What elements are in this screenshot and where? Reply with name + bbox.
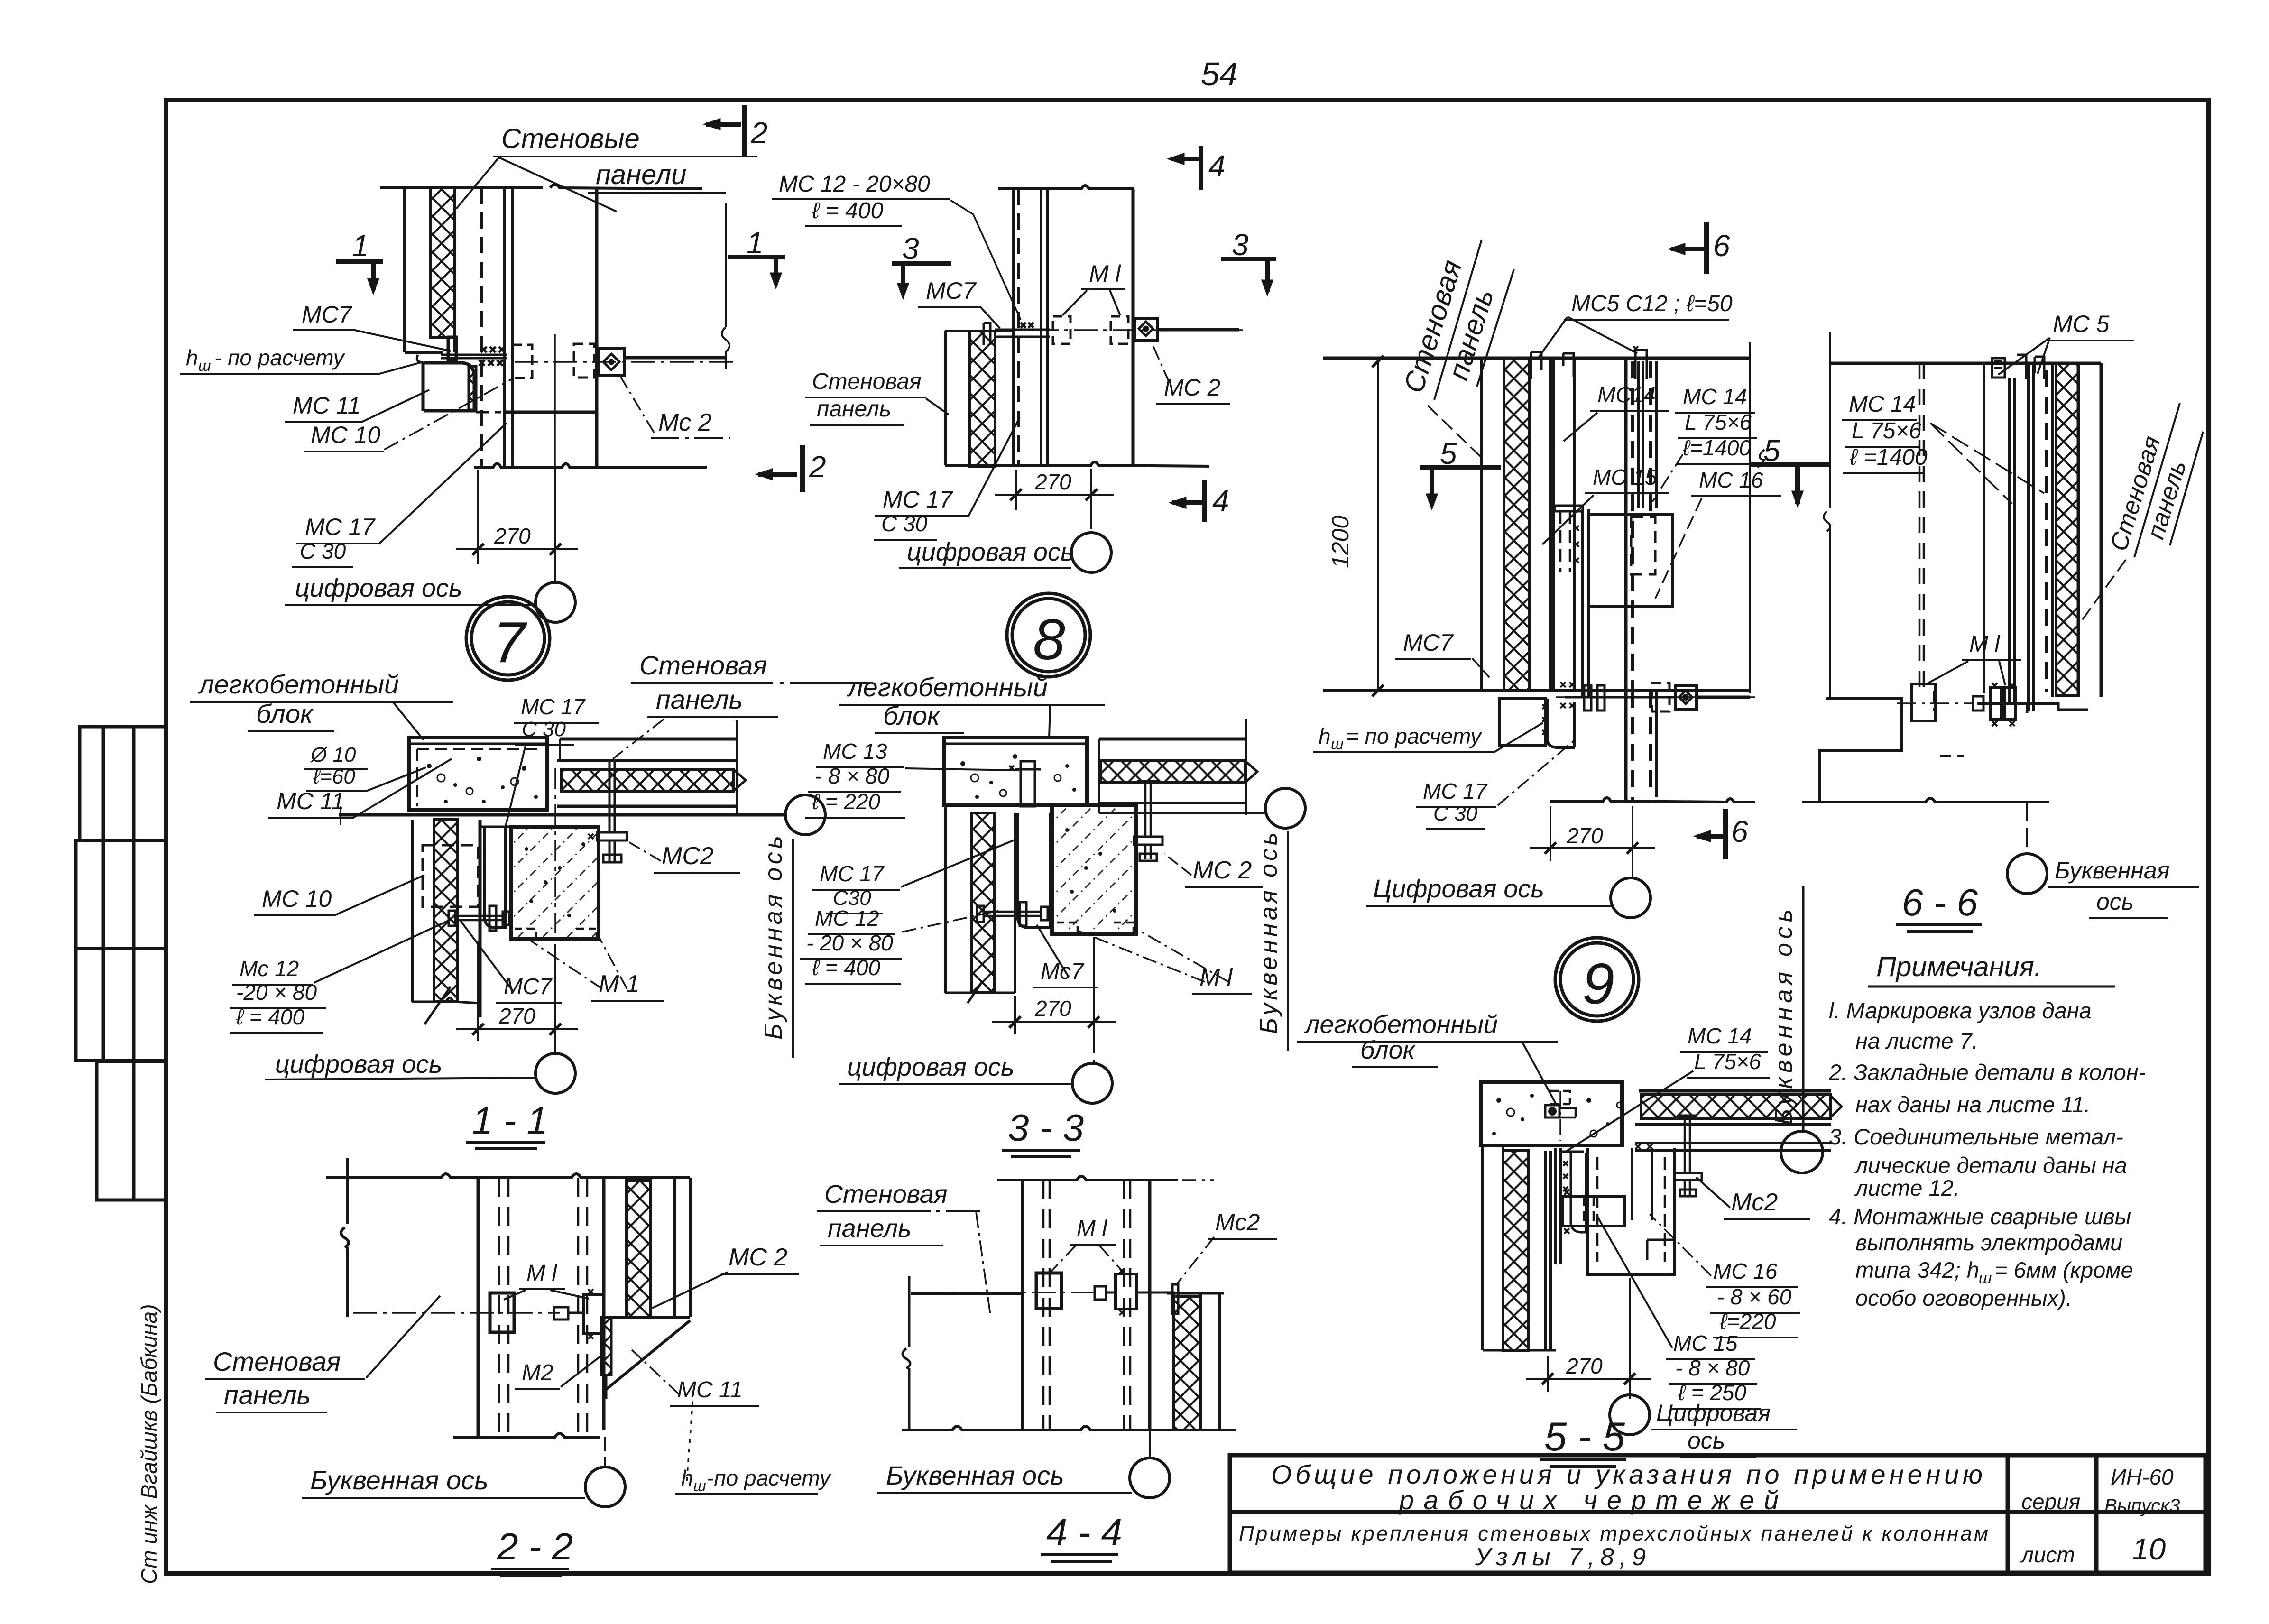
svg-text:1: 1: [747, 226, 764, 260]
svg-text:МС 16: МС 16: [1713, 1259, 1778, 1283]
bottom line: [453, 1433, 600, 1437]
dashed hidden lines: [1919, 363, 1924, 688]
svg-text:легкобетонный: легкобетонный: [198, 669, 399, 699]
svg-text:Стеновая: Стеновая: [824, 1180, 948, 1209]
lower assembly: [1323, 342, 1750, 697]
dimension 270: [1530, 806, 1655, 878]
connector plate: [995, 330, 1050, 337]
embed plate M1 (dashed): [512, 345, 532, 378]
bottom line: [902, 1426, 1236, 1430]
svg-text:Стеновые: Стеновые: [501, 123, 640, 154]
bolt assembly: [1036, 1273, 1061, 1309]
section mark 5 left: [1420, 468, 1501, 508]
svg-text:МС 10: МС 10: [262, 886, 332, 912]
svg-text:М l: М l: [1077, 1216, 1107, 1241]
svg-text:6: 6: [1731, 814, 1748, 849]
svg-text:ш: ш: [1979, 1269, 1992, 1287]
svg-text:МС 12: МС 12: [815, 906, 879, 931]
bottom break line: [1550, 798, 1755, 802]
svg-text:4: 4: [1208, 149, 1226, 183]
long horizontal line to bubble: [339, 813, 785, 817]
svg-text:лист: лист: [2020, 1542, 2075, 1567]
svg-text:ℓ =1400: ℓ =1400: [1849, 445, 1928, 470]
svg-text:4. Монтажные сварные швы: 4. Монтажные сварные швы: [1829, 1204, 2131, 1229]
svg-text:М2: М2: [522, 1360, 553, 1385]
svg-text:МС 12 - 20×80: МС 12 - 20×80: [779, 172, 930, 197]
wall panel right (horizontal): [1639, 1089, 1831, 1093]
svg-text:9: 9: [1582, 951, 1614, 1016]
svg-text:М 1: М 1: [599, 970, 640, 998]
МС2 anchor: [1135, 319, 1157, 341]
wall panel right (horizontal): [1099, 738, 1246, 741]
svg-text:3: 3: [1232, 228, 1249, 262]
right edge vertical: [1749, 342, 1751, 693]
dimension 270: [456, 467, 578, 582]
section mark 3 right: [1221, 259, 1276, 295]
svg-text:ось: ось: [1688, 1427, 1725, 1454]
svg-text:1200: 1200: [1327, 516, 1354, 568]
weld marks: [1021, 323, 1033, 328]
svg-text:5 - 5: 5 - 5: [1544, 1414, 1625, 1459]
svg-text:ось: ось: [2096, 888, 2134, 915]
svg-text:Примеры крепления стеновых т: Примеры крепления стеновых трехслойных п…: [1239, 1522, 1988, 1545]
right extension line with break: [722, 203, 729, 369]
svg-text:- 20 × 80: - 20 × 80: [806, 931, 893, 955]
svg-text:ℓ=1400: ℓ=1400: [1682, 435, 1751, 460]
svg-text:L 75×6: L 75×6: [1685, 410, 1752, 434]
svg-text:Буквенная: Буквенная: [2055, 857, 2169, 884]
concrete block: [944, 738, 1087, 805]
svg-text:Стеновая: Стеновая: [213, 1347, 341, 1376]
svg-text:ш: ш: [1331, 736, 1344, 753]
svg-text:блок: блок: [883, 701, 941, 730]
svg-text:МС 14: МС 14: [1688, 1024, 1752, 1048]
svg-text:270: 270: [1034, 996, 1071, 1021]
svg-text:М l: М l: [1089, 260, 1122, 287]
structure: [339, 720, 785, 1024]
J channel in assembly: [1571, 1153, 1586, 1232]
svg-text:Выпуск3: Выпуск3: [2104, 1495, 2180, 1516]
svg-text:270: 270: [1566, 1354, 1603, 1378]
panel inner leaf double line: [504, 188, 513, 467]
svg-text:ℓ=220: ℓ=220: [1719, 1309, 1776, 1334]
svg-text:легкобетонный: легкобетонный: [1304, 1010, 1498, 1039]
МС17 channel: [485, 827, 506, 928]
bolt assembly: [583, 1295, 603, 1334]
svg-text:МС7: МС7: [302, 301, 353, 328]
МС10 dashed embed: [423, 845, 478, 907]
буквенная ось: [2026, 802, 2028, 853]
svg-text:ИН-60: ИН-60: [2111, 1465, 2174, 1489]
svg-text:МС 17: МС 17: [820, 861, 885, 886]
svg-text:Мс 12: Мс 12: [240, 956, 299, 981]
wall panel leaves: [1480, 358, 1483, 691]
svg-text:ш: ш: [693, 1477, 706, 1495]
svg-text:ℓ = 400: ℓ = 400: [236, 1005, 304, 1029]
svg-text:Стеновая: Стеновая: [639, 650, 767, 680]
svg-text:Мс2: Мс2: [1731, 1189, 1778, 1216]
centerline: [353, 1312, 560, 1314]
МС14 angle: [1555, 1148, 1560, 1264]
lower-left wall panel: [945, 331, 1014, 465]
svg-text:панель: панель: [224, 1380, 311, 1410]
svg-text:МС 11: МС 11: [277, 788, 345, 814]
svg-text:МС 11: МС 11: [677, 1377, 743, 1403]
svg-text:цифровая ось: цифровая ось: [907, 538, 1074, 566]
panel bottom bracket: [2027, 703, 2088, 713]
svg-text:МС 14: МС 14: [1849, 392, 1916, 417]
bolt at top of block МС13: [1021, 761, 1035, 806]
svg-text:- 8 × 80: - 8 × 80: [1675, 1356, 1750, 1380]
column lines: [477, 1178, 480, 1437]
svg-text:листе 12.: листе 12.: [1854, 1175, 1960, 1200]
svg-text:панель: панель: [828, 1214, 912, 1243]
svg-text:h: h: [186, 345, 198, 370]
bottom floor line: [1323, 689, 1750, 692]
1200 vertical dimension: [1323, 356, 1384, 696]
svg-text:ℓ = 220: ℓ = 220: [812, 789, 880, 814]
svg-text:МС 15: МС 15: [1593, 465, 1657, 489]
svg-text:- 8 × 80: - 8 × 80: [815, 764, 890, 788]
svg-text:-по расчету: -по расчету: [707, 1466, 832, 1490]
svg-text:4: 4: [1212, 484, 1229, 518]
column face lines: [1624, 358, 1628, 691]
section mark 3 left: [892, 263, 951, 298]
node 7 bubble: [466, 597, 550, 680]
big bracket: [1587, 1148, 1674, 1274]
svg-text:Цифровая ось: Цифровая ось: [1373, 875, 1544, 903]
dimension 270: [1526, 1278, 1651, 1399]
буквенная ось bubble top-right: [1781, 1131, 1823, 1173]
top line: [1831, 362, 2101, 365]
svg-text:рабочих чертежей: рабочих чертежей: [1398, 1485, 1779, 1515]
svg-text:Буквенная ось: Буквенная ось: [310, 1465, 489, 1495]
svg-text:2: 2: [809, 450, 826, 484]
section mark 1 right: [728, 257, 785, 287]
support bracket МС11: [605, 1320, 690, 1390]
svg-text:5: 5: [1763, 434, 1780, 468]
svg-text:10: 10: [2132, 1532, 2166, 1566]
svg-text:- по расчету: - по расчету: [214, 345, 346, 370]
concrete block: [1481, 1082, 1622, 1145]
lower panel vertical: [944, 805, 947, 993]
joint assembly: [441, 334, 733, 562]
svg-text:270: 270: [1034, 470, 1071, 494]
МС2 bolt vertical: [609, 761, 615, 832]
section mark 5 right: [1750, 465, 1831, 506]
node 9 bubble: [1555, 938, 1639, 1021]
МС2 anchor: [1676, 686, 1697, 710]
top clip МС5: [2017, 355, 2044, 379]
svg-text:МС 2: МС 2: [729, 1244, 787, 1271]
svg-text:МС7: МС7: [1403, 629, 1454, 656]
section mark 4 top: [1169, 146, 1201, 190]
wall panel to the right (horizontal): [560, 738, 737, 741]
svg-text:МС 17: МС 17: [883, 486, 953, 513]
svg-text:ℓ=60: ℓ=60: [313, 765, 355, 788]
panel right: [627, 1181, 651, 1317]
svg-text:МС 15: МС 15: [1673, 1331, 1738, 1356]
panel outer leaf line: [403, 188, 406, 352]
dimension 270: [995, 469, 1114, 533]
svg-text:Мс7: Мс7: [1041, 959, 1085, 984]
centerline: [515, 361, 733, 363]
below-floor joint: [1499, 682, 1755, 802]
dimension 270: [992, 937, 1116, 1063]
structure verticals: [1983, 363, 1985, 693]
svg-text:1 - 1: 1 - 1: [472, 1099, 548, 1142]
svg-text:М l: М l: [526, 1261, 557, 1286]
svg-text:МС 17: МС 17: [305, 514, 376, 540]
svg-text:цифровая ось: цифровая ось: [847, 1053, 1014, 1081]
svg-text:серия: серия: [2021, 1489, 2080, 1514]
svg-text:ℓ = 400: ℓ = 400: [812, 955, 880, 980]
stipple dots in block: [427, 757, 538, 803]
svg-text:= 6мм (кроме: = 6мм (кроме: [1994, 1257, 2133, 1283]
details inside block: [1550, 1091, 1570, 1104]
column stub: [1052, 805, 1136, 934]
svg-text:легкобетонный: легкобетонный: [847, 672, 1048, 702]
svg-text:4 - 4: 4 - 4: [1046, 1511, 1122, 1553]
svg-text:2. Закладные детали в колон-: 2. Закладные детали в колон-: [1828, 1060, 2146, 1085]
centerline: [915, 1292, 1100, 1293]
svg-text:МС 13: МС 13: [823, 739, 887, 764]
hш bracket and channel: [1499, 699, 1546, 745]
svg-text:ℓ = 400: ℓ = 400: [812, 198, 884, 223]
insulation layer (hatched): [431, 188, 455, 337]
svg-text:8: 8: [1033, 607, 1065, 672]
M1 embeds dashed: [1053, 316, 1070, 344]
anchor МС2: [598, 348, 624, 376]
column dashed hidden line: [480, 188, 483, 467]
МС7 bolt horizontal: [983, 912, 1041, 916]
M1 joint: [1897, 683, 2059, 726]
concrete block: [409, 738, 547, 810]
svg-text:Примечания.: Примечания.: [1876, 951, 2042, 982]
svg-text:Буквенная ось: Буквенная ось: [886, 1460, 1064, 1490]
svg-text:С 30: С 30: [1433, 802, 1477, 825]
МС5 clips at top: [1531, 352, 1541, 379]
svg-text:54: 54: [1201, 55, 1238, 92]
svg-text:= по расчету: = по расчету: [1346, 724, 1483, 748]
stipples in block: [1492, 1094, 1610, 1135]
svg-text:МС 14: МС 14: [1683, 384, 1747, 409]
svg-text:7: 7: [493, 610, 527, 674]
svg-text:МС 2: МС 2: [1193, 857, 1252, 884]
svg-text:Ø 10: Ø 10: [310, 743, 356, 766]
svg-text:выполнять электродами: выполнять электродами: [1855, 1230, 2122, 1255]
МС14 angle: [1639, 361, 1657, 508]
weld marks: [481, 347, 505, 352]
svg-text:цифровая ось: цифровая ось: [295, 574, 462, 602]
svg-text:- 8 × 60: - 8 × 60: [1717, 1284, 1792, 1309]
left extension: [1824, 332, 1830, 699]
svg-text:блок: блок: [1360, 1036, 1416, 1064]
svg-text:5: 5: [1440, 436, 1457, 471]
svg-text:2: 2: [750, 116, 768, 150]
svg-text:цифровая ось: цифровая ось: [275, 1050, 442, 1079]
svg-text:М l: М l: [1969, 632, 2000, 657]
svg-text:МС14: МС14: [1597, 382, 1656, 407]
svg-text:панель: панель: [656, 684, 743, 714]
line под column: [476, 411, 501, 414]
МС16 plate: [1632, 1148, 1652, 1220]
svg-text:270: 270: [1566, 823, 1603, 848]
svg-text:лические детали даны на: лические детали даны на: [1854, 1153, 2127, 1178]
clip at panel top: [984, 323, 990, 345]
svg-text:2 - 2: 2 - 2: [497, 1525, 573, 1568]
svg-text:Стеновая: Стеновая: [812, 369, 922, 394]
column bottom step: [1820, 699, 1902, 801]
svg-text:Мс2: Мс2: [1215, 1209, 1260, 1236]
top floor line: [1323, 357, 1750, 360]
svg-text:L 75×6: L 75×6: [1694, 1049, 1762, 1074]
left column of 5-5: [1481, 1145, 1484, 1350]
structure: [1481, 1082, 1842, 1350]
svg-text:С 30: С 30: [300, 539, 346, 563]
svg-text:МС 2: МС 2: [1164, 374, 1221, 401]
svg-text:3: 3: [902, 231, 919, 266]
svg-text:блок: блок: [256, 699, 314, 729]
wall panel top edge: [380, 185, 702, 189]
section mark 6 top: [1669, 222, 1706, 274]
svg-text:-20 × 80: -20 × 80: [236, 980, 317, 1005]
svg-text:панель: панель: [817, 397, 891, 422]
section mark 2 bottom: [757, 445, 802, 492]
svg-text:h: h: [1319, 724, 1331, 748]
буквенная ось: [1265, 788, 1305, 828]
bottom break line: [945, 462, 1209, 466]
column lines: [1012, 189, 1015, 466]
top line: [326, 1174, 690, 1178]
left break line: [341, 1158, 349, 1317]
top line: [997, 1176, 1178, 1180]
svg-text:МС 16: МС 16: [1699, 468, 1763, 492]
left panel edge: [911, 1292, 1021, 1295]
svg-text:МС 11: МС 11: [293, 392, 361, 419]
svg-text:Мс 2: Мс 2: [658, 409, 712, 436]
lower wall panel vertical: [411, 820, 414, 1002]
M1 plate: [490, 1293, 514, 1332]
МС5 clip on column: [1635, 350, 1647, 379]
МС7 bolt horizontal: [454, 916, 503, 920]
svg-text:Цифровая: Цифровая: [1656, 1400, 1771, 1426]
svg-text:ш: ш: [198, 357, 211, 374]
column stub concrete: [511, 827, 599, 939]
section mark 1 left: [336, 261, 383, 293]
grid bubble: [535, 582, 575, 622]
svg-text:3 - 3: 3 - 3: [1008, 1107, 1084, 1149]
svg-text:МС7: МС7: [926, 277, 977, 304]
column axis thin line: [554, 334, 556, 562]
svg-text:особо оговоренных).: особо оговоренных).: [1855, 1285, 2072, 1310]
МС7 connector piece at bottom of insulation: [448, 337, 456, 360]
svg-text:МС5 С12 ; ℓ=50: МС5 С12 ; ℓ=50: [1571, 291, 1733, 316]
svg-text:нах даны на листе 11.: нах даны на листе 11.: [1855, 1092, 2091, 1117]
svg-text:3. Соединительные метал-: 3. Соединительные метал-: [1829, 1124, 2123, 1149]
fold mark boxes left margin: [76, 727, 166, 1200]
svg-text:МС7: МС7: [504, 974, 553, 999]
top edge: [998, 185, 1134, 189]
svg-text:МС 17: МС 17: [521, 694, 586, 719]
svg-text:МС 17: МС 17: [1423, 779, 1488, 803]
section mark 4 bottom: [1171, 480, 1205, 522]
svg-text:270: 270: [498, 1004, 535, 1028]
svg-text:МС 5: МС 5: [2053, 311, 2110, 337]
svg-text:6 - 6: 6 - 6: [1902, 881, 1978, 923]
section mark 2 top: [705, 105, 745, 157]
svg-text:типа 342; h: типа 342; h: [1855, 1257, 1979, 1283]
svg-text:на листе 7.: на листе 7.: [1855, 1028, 1978, 1053]
буквенная ось (rotated): [785, 795, 825, 835]
section mark 6 bottom: [1695, 809, 1725, 859]
panel right: [1174, 1297, 1200, 1430]
svg-text:6: 6: [1713, 229, 1730, 263]
node 8 bubble: [1007, 593, 1090, 677]
МС15 plate: [1563, 1196, 1625, 1226]
svg-text:Узлы 7,8,9: Узлы 7,8,9: [1475, 1543, 1646, 1571]
svg-text:Ст инж Вгайшкв (Бабкина): Ст инж Вгайшкв (Бабкина): [137, 1304, 161, 1584]
M1 embeds: [1057, 923, 1078, 933]
буквенная ось rotated with line: [1802, 886, 1805, 1131]
svg-text:270: 270: [494, 524, 531, 548]
МС10 ledge and МС11 block: [417, 355, 424, 363]
dimension 270: [456, 768, 578, 1053]
svg-text:МС2: МС2: [662, 842, 714, 870]
M1 embeds at block bottom: [515, 929, 536, 938]
column lines: [1021, 1180, 1024, 1430]
svg-text:МС 10: МС 10: [311, 422, 380, 448]
stipples in block: [960, 754, 1076, 799]
column continues: [1624, 691, 1628, 801]
structure: [944, 719, 1265, 1003]
svg-text:l. Маркировка узлов дана: l. Маркировка узлов дана: [1829, 998, 2092, 1023]
svg-text:L 75×6: L 75×6: [1852, 418, 1922, 443]
svg-text:1: 1: [352, 229, 369, 263]
lower break line: [474, 464, 707, 468]
bolt flanges: [1584, 685, 1591, 710]
МС17 channel: [1018, 813, 1050, 928]
svg-text:С 30: С 30: [881, 511, 928, 536]
МС2 bolt: [1137, 780, 1159, 783]
svg-text:панели: панели: [596, 159, 686, 190]
column face: [595, 188, 599, 467]
dots in column stub: [525, 842, 585, 917]
МС2 bolt: [1685, 1116, 1690, 1173]
